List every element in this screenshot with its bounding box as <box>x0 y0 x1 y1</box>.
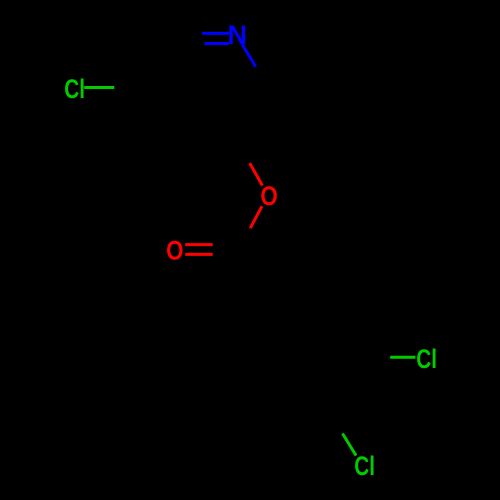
svg-text:Cl: Cl <box>416 344 437 374</box>
bond N1-C2 (N half) <box>242 44 256 66</box>
atom Cl label (pyridine C5 substituent) <box>64 74 85 104</box>
atom O carbonyl label <box>166 237 183 266</box>
pyridine C6=N1 double bond (N half, inner line) <box>204 42 229 45</box>
bond C5-Cl (Cl half) <box>84 86 114 89</box>
bond O-C carbonyl (O half) <box>250 206 262 228</box>
svg-text:Cl: Cl <box>64 74 85 104</box>
C=O double bond (O half, upper line) <box>185 243 213 246</box>
pyridine C6=N1 double bond (N half, main line) <box>202 32 229 35</box>
atom N1 label <box>228 20 248 50</box>
bond C4'-Cl (Cl half) <box>343 434 357 456</box>
atom Cl label (benzene C3') <box>416 344 437 374</box>
bond C3-O ester (O half) <box>250 163 263 186</box>
atom O ester label <box>260 182 277 211</box>
atom Cl label (benzene C4') <box>354 452 375 482</box>
C=O double bond (O half, lower line) <box>185 253 213 256</box>
svg-text:Cl: Cl <box>354 452 375 482</box>
svg-text:O: O <box>166 237 183 266</box>
bond C3'-Cl (Cl half) <box>390 356 415 359</box>
